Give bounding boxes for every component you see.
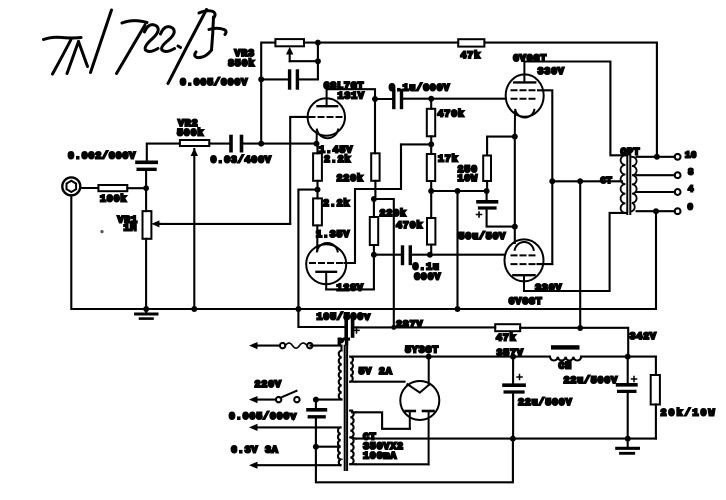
input jack J1 xyxy=(62,177,80,195)
junction 2.2k divider xyxy=(315,187,321,193)
wire 5V winding to filament xyxy=(356,381,405,383)
ground symbol PSU xyxy=(617,439,639,454)
wire CT riser to 342V rail xyxy=(579,181,581,328)
svg-text:5V 2A: 5V 2A xyxy=(359,367,393,378)
junction riser-feedback xyxy=(258,141,264,147)
wire V2 plate to OPT xyxy=(524,213,625,291)
svg-text:0: 0 xyxy=(688,203,694,213)
svg-text:2.2k: 2.2k xyxy=(324,154,351,166)
capacitor 0.1u 600V lower xyxy=(374,247,505,264)
svg-text:22u/500V: 22u/500V xyxy=(518,397,572,409)
transformer PT core xyxy=(344,346,346,470)
junction PSU ground right xyxy=(625,436,631,442)
svg-text:470k: 470k xyxy=(396,220,423,232)
svg-text:0.005/600v: 0.005/600v xyxy=(229,411,297,423)
junction B+ riser on rail xyxy=(391,325,396,330)
svg-text:128V: 128V xyxy=(337,284,364,295)
OPT tap 16 xyxy=(637,156,675,158)
svg-text:CH: CH xyxy=(559,362,573,373)
potentiometer VR3 850k xyxy=(261,39,318,79)
svg-text:100mA: 100mA xyxy=(363,452,397,463)
switch S1 xyxy=(254,391,300,403)
svg-text:220V: 220V xyxy=(255,380,282,391)
svg-text:4: 4 xyxy=(688,185,694,195)
junction cathode 50u xyxy=(512,224,518,230)
wire 5Y3 right plate to HV bottom xyxy=(356,463,429,465)
junction bus bias riser xyxy=(455,306,461,312)
arrow mains bottom xyxy=(249,396,258,403)
wire 6.3V bottom xyxy=(254,464,341,466)
junction T1 plate node xyxy=(372,96,378,102)
PT 5V winding xyxy=(350,357,356,382)
arrow 6.3V top xyxy=(249,424,258,431)
svg-text:17k: 17k xyxy=(438,154,458,166)
junction CT riser on rail xyxy=(577,325,583,331)
resistor 47k smoothing xyxy=(495,324,520,331)
junction 6.3V CT xyxy=(313,444,319,450)
svg-text:CT: CT xyxy=(601,176,613,186)
junction PSU ground left xyxy=(510,436,516,442)
svg-text:20k/10W: 20k/10W xyxy=(661,408,717,420)
junction T2 plate node xyxy=(371,252,377,258)
capacitor 0.1u/600V upper xyxy=(375,91,506,108)
arrow mains top xyxy=(249,342,258,349)
svg-text:10U/500v: 10U/500v xyxy=(317,312,371,324)
wire B+ branch riser xyxy=(374,199,394,327)
wire CT to screens xyxy=(552,180,622,182)
junction 250 bottom xyxy=(484,188,490,194)
resistor 17k xyxy=(427,154,435,191)
wire 0.03 cap to cathode node xyxy=(243,143,316,145)
capacitor 10U/500v xyxy=(298,309,359,336)
svg-text:0.005/600V: 0.005/600V xyxy=(180,77,248,89)
ground bus xyxy=(71,195,656,309)
svg-text:2.2k: 2.2k xyxy=(323,198,350,210)
junction 470k-17k xyxy=(428,141,434,147)
svg-text:131V: 131V xyxy=(338,92,365,103)
capacitor 22u/500V second xyxy=(618,357,637,439)
svg-text:342V: 342V xyxy=(630,332,657,343)
tube 6V6GT upper V1 xyxy=(506,62,544,137)
handwritten title TN 722/5 xyxy=(44,10,227,84)
potentiometer VR2 500k xyxy=(147,140,209,309)
wire 5Y3 left plate to HV top xyxy=(356,412,410,429)
resistor 2.2k lower xyxy=(313,198,322,250)
wire V1 plate to OPT xyxy=(524,62,625,156)
svg-text:50u/50V: 50u/50V xyxy=(459,231,507,243)
wire VR2 to 0.03 cap xyxy=(209,143,229,145)
resistor 2.2k upper xyxy=(313,144,322,199)
svg-text:5Y3GT: 5Y3GT xyxy=(405,346,439,357)
357V wire xyxy=(352,356,550,358)
junction 470k-2 bottom xyxy=(427,252,433,258)
junction 470k top xyxy=(428,96,434,102)
svg-text:0.002/600V: 0.002/600V xyxy=(68,151,136,163)
wire 6.3V CT tap xyxy=(316,446,338,448)
wire V2 screen xyxy=(538,263,553,265)
potentiometer VR1 1M xyxy=(143,188,161,309)
wire VR1 wiper to grid riser xyxy=(160,223,290,225)
junction T1 cathode xyxy=(314,141,320,147)
wire bias riser to ground xyxy=(456,191,458,309)
ground symbol xyxy=(136,309,157,319)
PT primary winding xyxy=(311,346,342,400)
svg-text:6.3V 3A: 6.3V 3A xyxy=(231,446,279,457)
capacitor 0.005/600v line xyxy=(308,400,513,483)
svg-text:1M: 1M xyxy=(124,224,138,235)
junction VR3 wiper xyxy=(315,58,321,64)
svg-text:500k: 500k xyxy=(177,128,204,140)
wire 47k to OPT 16 tap xyxy=(484,43,657,157)
svg-text:220k: 220k xyxy=(337,173,364,185)
junction 22u-1 xyxy=(510,354,516,360)
transformer OPT primary winding xyxy=(621,155,626,213)
OPT tap 8 xyxy=(637,174,675,176)
svg-text:357V: 357V xyxy=(497,349,524,360)
wire V1 screen xyxy=(538,90,552,264)
junction cathode 250 xyxy=(512,134,518,140)
wire 6V6 cathode line xyxy=(514,137,516,243)
junction bias riser xyxy=(455,188,461,194)
PT HV winding 350VX2 xyxy=(350,411,356,465)
wire T1 plate xyxy=(327,89,375,99)
fuse F1 xyxy=(254,343,312,348)
svg-text:8: 8 xyxy=(688,168,694,178)
wire riser to T1 grid xyxy=(290,117,308,224)
OPT tap 4 xyxy=(637,191,675,193)
capacitor 0.005/600V feedback xyxy=(261,71,318,88)
tube 6SL7 triode T2 xyxy=(306,243,346,289)
wire T2 plate xyxy=(326,255,374,290)
capacitor 50u/50V xyxy=(477,191,515,227)
wire 100k to node A xyxy=(127,187,146,189)
svg-text:0.03/400V: 0.03/400V xyxy=(211,155,272,167)
wire jack to 100k xyxy=(80,187,98,189)
choke CH xyxy=(550,345,581,360)
svg-text:6V6GT: 6V6GT xyxy=(509,297,543,308)
node A junction xyxy=(143,185,149,191)
junction bus 2.2k divider xyxy=(295,306,301,312)
junction B+ tap xyxy=(371,196,377,202)
wire VR3 riser down xyxy=(260,79,262,143)
capacitor 22u/500V first xyxy=(504,357,524,439)
resistor 220k upper xyxy=(371,99,379,199)
svg-text:47k: 47k xyxy=(496,333,516,345)
OPT tap 0 xyxy=(637,210,675,212)
junction CT riser xyxy=(577,178,583,184)
wire 6.3V top xyxy=(254,426,341,428)
junction 342V choke out xyxy=(625,354,631,360)
svg-text:470k: 470k xyxy=(438,109,465,121)
PT 6.3V winding xyxy=(338,427,340,465)
feedback top wire xyxy=(318,42,458,44)
svg-text:330V: 330V xyxy=(535,284,562,295)
svg-text:220k: 220k xyxy=(380,208,407,220)
junction bus VR2 wiper xyxy=(191,306,197,312)
junction 5Y3 output xyxy=(426,354,432,360)
junction screens-CT xyxy=(549,178,555,184)
svg-text:100k: 100k xyxy=(100,194,127,206)
op tube 6SL7 triode T1 xyxy=(308,89,345,143)
svg-text:850k: 850k xyxy=(228,58,255,70)
svg-text:22u/500V: 22u/500V xyxy=(564,375,618,387)
svg-text:6V6GT: 6V6GT xyxy=(513,54,547,65)
resistor 470k upper xyxy=(427,99,435,154)
tube 6V6GT lower V2 xyxy=(505,239,544,291)
resistor 220k lower xyxy=(370,199,378,255)
B+ rail 287V-342V xyxy=(357,326,495,328)
wire divider to ground xyxy=(298,190,317,309)
wire bias node xyxy=(431,190,486,192)
PSU ground rail xyxy=(356,438,656,440)
svg-text:287V: 287V xyxy=(396,320,423,331)
junction switch-cap xyxy=(313,397,319,403)
resistor 470k lower xyxy=(427,191,435,255)
svg-text:1.35V: 1.35V xyxy=(316,230,350,241)
tube 5Y3GT rectifier xyxy=(400,357,439,465)
transformer OPT core xyxy=(626,151,628,215)
svg-text:16: 16 xyxy=(685,151,697,161)
capacitor 0.002/600V xyxy=(137,144,156,189)
junction VR3 top xyxy=(315,40,321,46)
resistor 20k/10W bleeder xyxy=(651,357,660,439)
junction bus VR1 xyxy=(143,306,149,312)
resistor 47k feedback xyxy=(458,39,484,46)
resistor 100k xyxy=(98,185,127,191)
resistor 250 10W cathode xyxy=(483,137,515,191)
wire T2 grid xyxy=(345,144,402,263)
svg-text:0.1u/600V: 0.1u/600V xyxy=(389,83,450,95)
svg-text:10W: 10W xyxy=(458,174,478,185)
svg-text:47k: 47k xyxy=(461,50,481,62)
arrow 6.3V bottom xyxy=(249,462,258,469)
junction feedback cap left xyxy=(258,76,264,82)
svg-text:330V: 330V xyxy=(538,67,565,78)
wire 470k junction to grid riser xyxy=(401,143,431,145)
junction 17k bottom xyxy=(428,188,434,194)
svg-text:600V: 600V xyxy=(414,273,441,284)
capacitor 0.03/400V xyxy=(231,137,242,151)
transformer OPT secondary winding xyxy=(632,157,637,211)
